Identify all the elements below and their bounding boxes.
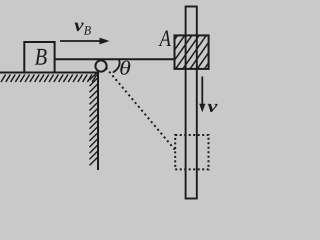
table right edge hatching [90,72,98,166]
table top hatching [1,75,97,83]
dotted line: rope position when ring A has slid down [106,68,175,150]
velocity arrow v of ring A [199,77,205,113]
vertical rod [186,7,197,199]
label B [35,49,47,65]
ring/block A on rod (hatched) [115,17,292,74]
label theta [120,61,130,75]
label v_B [74,23,91,35]
table right edge line [97,72,99,171]
rope from block B over pulley to ring A [54,58,175,60]
label A [159,31,172,47]
label v [208,104,218,112]
angle arc theta [113,60,120,73]
block B on table [24,42,54,73]
pulley at table corner [95,60,106,71]
dotted rectangle: later position of ring A [175,135,208,169]
velocity arrow v_B of block B [60,38,110,45]
table top surface line [0,72,99,74]
